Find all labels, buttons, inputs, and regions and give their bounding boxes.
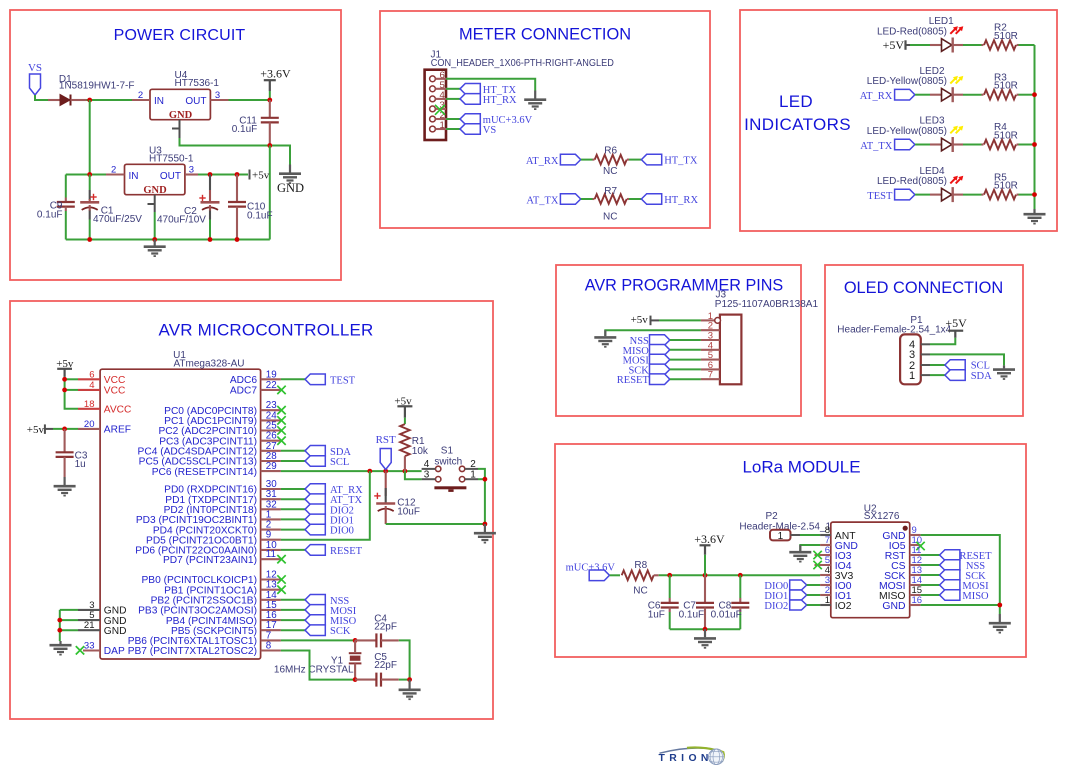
U1 pin 2 PD4 (261, 529, 281, 531)
svg-text:0.1uF: 0.1uF (37, 209, 63, 220)
svg-text:AT_TX: AT_TX (526, 195, 558, 206)
ground for J1 pin 6 (524, 91, 546, 110)
wire U2 MOSI to MOSI (921, 584, 940, 586)
svg-text:OUT: OUT (185, 96, 206, 107)
wire RESET to J3 (670, 378, 701, 380)
U1 pin 29 PC6 (261, 470, 281, 472)
wire U3 GND to bottom rail (154, 212, 156, 240)
junction C7 top (703, 573, 708, 578)
svg-text:DIO0: DIO0 (330, 526, 354, 537)
net label RESET (305, 545, 325, 556)
svg-text:3: 3 (215, 90, 220, 101)
svg-text:22pF: 22pF (374, 660, 397, 671)
wire C12 bottom to ground net (386, 523, 485, 525)
svg-text:21: 21 (84, 620, 95, 631)
wire J1 pin2 to mUC+3.6V (446, 118, 460, 120)
svg-text:DIO2: DIO2 (764, 601, 788, 612)
ground bottom rail (66, 239, 270, 241)
wire +3.6V to rail (704, 555, 706, 576)
wire P1 pin2 to SCL (930, 364, 945, 366)
svg-text:GND: GND (143, 185, 167, 196)
POWER CIRCUIT section frame (10, 10, 341, 280)
U2 pin 11 RST (910, 554, 921, 556)
U1 pin 12 PB0 (261, 578, 281, 580)
svg-text:LED: LED (779, 92, 813, 111)
svg-text:TRION: TRION (659, 753, 713, 764)
wire C5 to ground corner (399, 679, 410, 681)
svg-text:PC6 (RESETPCINT14): PC6 (RESETPCINT14) (152, 467, 257, 478)
capacitor C2 470uF/10V polarized (209, 175, 211, 191)
svg-text:22pF: 22pF (374, 622, 397, 633)
wire input rail to U3 IN (66, 174, 106, 176)
svg-text:HT_RX: HT_RX (664, 195, 698, 206)
svg-text:510R: 510R (994, 81, 1018, 92)
svg-text:16: 16 (912, 595, 923, 606)
net label AT_RX (305, 484, 325, 495)
regulator U3 HT7550-1 (125, 164, 185, 194)
U1 pin 33 DAP (83, 649, 100, 651)
net label SCK (305, 625, 325, 636)
capacitor C12 10uF polarized (385, 471, 387, 496)
svg-text:SCK: SCK (330, 626, 351, 637)
wire R6 to HT_TX flag (629, 159, 641, 161)
U1 pin 11 PD7 (261, 558, 281, 560)
resistor R2 510R (982, 44, 984, 46)
wire U1 PD2 to DIO2 (281, 508, 305, 510)
wire U1 PC4 to SDA (281, 450, 305, 452)
capacitor C3 1u (64, 429, 66, 452)
wire R1 junction to S1 pin3 (405, 471, 422, 479)
svg-text:1u: 1u (75, 459, 86, 470)
junction Y1 top (353, 638, 358, 643)
U1 pin 33 DAP no-connect X (76, 646, 84, 654)
wire U2 GND9 to ground (921, 535, 1000, 614)
U1 pin 15 PB3 (261, 609, 281, 611)
svg-text:OUT: OUT (160, 171, 181, 182)
wire AT_RX flag to R6 (581, 159, 593, 161)
U1 pin 30 PD0 (261, 488, 281, 490)
wire U1 PD4 to DIO0 (281, 529, 305, 531)
S1 pin 1 lead (465, 478, 478, 480)
ground at P1 pin3 (993, 365, 1015, 379)
ground under crystal (399, 680, 421, 700)
svg-text:CON_HEADER_1X06-PTH-RIGHT-ANGL: CON_HEADER_1X06-PTH-RIGHT-ANGLED (431, 58, 614, 69)
S1 pin 4 lead (422, 468, 436, 470)
U2 pin 9 GND (910, 534, 921, 536)
ground under C3 (54, 477, 76, 496)
svg-text:RESET: RESET (330, 546, 363, 557)
METER CONNECTION section frame (380, 11, 710, 228)
U2 pin 12 CS (910, 564, 921, 566)
svg-text:HT_RX: HT_RX (483, 95, 517, 106)
svg-text:HT7550-1: HT7550-1 (149, 154, 194, 165)
J1 pin 5 (430, 86, 436, 92)
wire U1 ADC6 to TEST (281, 378, 305, 380)
ground at U2 pin7 (789, 545, 811, 562)
net label HT_RX right (641, 194, 661, 205)
svg-text:0.01uF: 0.01uF (711, 609, 742, 620)
U4 GND pin (172, 120, 180, 138)
wire NSS to J3 (670, 339, 701, 341)
junction caps ground (703, 627, 708, 632)
svg-text:16MHz CRYSTAL: 16MHz CRYSTAL (274, 665, 354, 676)
wire J1 pin1 to VS (446, 128, 460, 130)
wire diode to U4 IN (87, 99, 133, 101)
svg-text:TEST: TEST (867, 191, 893, 202)
wire DIO1 to U2 (807, 594, 820, 596)
junction RST branch (383, 469, 388, 474)
capacitor C11 0.1uF (269, 100, 271, 118)
junction C11 bottom (267, 143, 272, 148)
U3 pin 3 lead (185, 173, 198, 175)
net label DIO1 (305, 514, 325, 525)
svg-text:P2: P2 (766, 511, 779, 522)
U1 pin 13 PB1 (261, 589, 281, 591)
svg-text:6: 6 (89, 369, 94, 380)
wire R5 to common (1019, 194, 1035, 196)
junction node at D1 output (87, 98, 92, 103)
resistor R5 510R (982, 194, 984, 196)
U1 pin 17 PB5 (261, 629, 281, 631)
svg-text:2: 2 (111, 165, 116, 176)
OLED CONNECTION section frame (825, 265, 1023, 416)
svg-text:11: 11 (266, 549, 276, 560)
wire U1 PC5 to SCL (281, 460, 305, 462)
wire U1 PD0 to AT_RX (281, 488, 305, 490)
ground at J3 pin2 (594, 330, 616, 347)
svg-text:470uF/25V: 470uF/25V (93, 214, 142, 225)
wire U2 SCK to SCK (921, 574, 940, 576)
svg-text:PD7 (PCINT23AIN1): PD7 (PCINT23AIN1) (163, 555, 257, 566)
wire U1 PB5 to SCK (281, 629, 305, 631)
wire MISO to J3 (670, 349, 701, 351)
svg-text:+5v: +5v (252, 170, 270, 182)
LED common vertical wire (1034, 45, 1036, 209)
svg-text:ADC6: ADC6 (230, 375, 258, 386)
svg-text:LED-Red(0805): LED-Red(0805) (877, 26, 947, 37)
net label MISO (305, 615, 325, 626)
svg-text:4: 4 (89, 380, 94, 391)
net label SDA (945, 370, 965, 381)
svg-text:1: 1 (440, 120, 445, 131)
capacitor C10 0.1uF (236, 175, 238, 203)
U2 pin 6 IO3 (815, 554, 831, 556)
junction U3 GND bottom (152, 237, 157, 242)
wire +5v to R1 (404, 418, 406, 424)
svg-text:3: 3 (189, 165, 194, 176)
svg-text:HT7536-1: HT7536-1 (175, 78, 220, 89)
wire DIO2 to U2 (807, 604, 820, 606)
wire +5v to AREF (53, 428, 78, 430)
net label HT_TX (460, 84, 480, 95)
svg-text:NC: NC (603, 166, 617, 177)
svg-text:TEST: TEST (330, 375, 356, 386)
capacitor C6 1uF (669, 575, 671, 598)
svg-text:AVCC: AVCC (104, 405, 132, 416)
svg-text:+5V: +5V (945, 316, 967, 330)
svg-text:510R: 510R (994, 31, 1018, 42)
resistor R8 NC (622, 571, 654, 581)
svg-text:SDA: SDA (971, 371, 992, 382)
capacitor C1 470uF/25V polarized (89, 175, 91, 191)
J1 pin 6 (430, 76, 436, 82)
svg-text:GND: GND (104, 626, 127, 637)
U3 pin 2 lead (106, 173, 125, 175)
svg-text:VS: VS (28, 62, 42, 74)
junction S1 pin1 (483, 477, 488, 482)
junction LED4 row (1032, 192, 1037, 197)
svg-text:NC: NC (603, 212, 617, 223)
svg-text:AT_RX: AT_RX (860, 91, 893, 102)
wire mUC flag to R8 (610, 574, 620, 576)
U2 pin 14 MOSI (910, 584, 921, 586)
junction crystal ground node (407, 677, 412, 682)
svg-text:2: 2 (138, 90, 143, 101)
LoRa caps ground rail (670, 628, 741, 630)
ground under GND pins (50, 641, 72, 655)
crystal Y1 16MHz (354, 640, 356, 652)
U2 pin 8 ANT (820, 534, 831, 536)
U1 pin 18 AVCC (78, 408, 100, 410)
wire J1 pin6 to ground (446, 79, 535, 91)
svg-text:PB7 (PCINT7XTAL2TOSC2): PB7 (PCINT7XTAL2TOSC2) (128, 646, 257, 657)
ground at U2 right (989, 614, 1011, 633)
capacitor C9 0.1uF (65, 175, 67, 198)
ground LED common (1024, 209, 1046, 224)
wire R3 to common (1019, 94, 1035, 96)
ground under U3 (144, 240, 166, 257)
wire P1 pin1 to SDA (930, 374, 945, 376)
U1 pin 27 PC4 (261, 450, 281, 452)
J1 pin 3 (430, 106, 436, 112)
net label RESET (940, 550, 960, 561)
wire P1 pin3 to ground (930, 354, 1004, 365)
U2 pin 16 GND (910, 604, 921, 606)
wire AT_TX flag to R7 (581, 198, 593, 200)
net label SCL (305, 456, 325, 467)
junction U2 grounds (997, 603, 1002, 608)
junction U3 input at D1 branch (87, 172, 92, 177)
net PC6 wire to reset circuit (281, 470, 422, 472)
net label DIO2 (305, 504, 325, 515)
U2 pin 7 GND (820, 544, 831, 546)
svg-text:LED-Red(0805): LED-Red(0805) (877, 176, 947, 187)
resistor R7 NC (593, 198, 595, 200)
resistor R4 510R (982, 143, 984, 145)
wire U3 OUT to +5v tap (198, 174, 248, 176)
U1 pin 9 PD5 (261, 539, 281, 541)
wire U1 PD6 to RESET (281, 549, 305, 551)
svg-text:33: 33 (84, 641, 95, 652)
svg-text:LED-Yellow(0805): LED-Yellow(0805) (867, 126, 947, 137)
svg-text:AT_RX: AT_RX (526, 156, 559, 167)
svg-text:INDICATORS: INDICATORS (744, 115, 851, 134)
U1 pin 23 PC0 (261, 409, 281, 411)
wire LED2 to R3 (963, 94, 982, 96)
wire +5V to LED1 (910, 44, 930, 46)
ground under caps (694, 629, 716, 648)
net label VS (30, 74, 41, 95)
svg-text:0.1uF: 0.1uF (232, 124, 258, 135)
junction R1 bottom (403, 469, 408, 474)
svg-text:1N5819HW1-7-F: 1N5819HW1-7-F (59, 81, 135, 92)
LED INDICATORS section frame (740, 10, 1057, 231)
TRION logo (659, 747, 726, 764)
wire GND pins to ground (60, 609, 78, 611)
J1 pin3 no-connect X (435, 105, 445, 115)
U2 pin 2 IO1 (820, 594, 831, 596)
U1 pin 26 PC3 (261, 440, 281, 442)
capacitor C8 0.01uF (739, 575, 741, 598)
svg-text:1uF: 1uF (648, 609, 665, 620)
U1 pin 24 PC1 (261, 419, 281, 421)
LoRa module U2 SX1276 (831, 522, 910, 618)
svg-text:S1: S1 (441, 445, 454, 456)
svg-text:510R: 510R (994, 130, 1018, 141)
junction Y1 bottom (353, 677, 358, 682)
wire LED4 to R5 (963, 194, 982, 196)
svg-text:10uF: 10uF (397, 507, 420, 518)
wire MOSI to J3 (670, 359, 701, 361)
junction C2 node (208, 172, 213, 177)
svg-text:VCC: VCC (104, 386, 126, 397)
U2 pin 3 IO0 (820, 584, 831, 586)
svg-text:IO2: IO2 (835, 601, 852, 612)
wire U1 PB2 to NSS (281, 599, 305, 601)
svg-text:AVR PROGRAMMER PINS: AVR PROGRAMMER PINS (585, 277, 784, 295)
diode D1 1N5819HW1-7-F (48, 99, 60, 101)
net label mUC+3.6V (460, 114, 480, 125)
svg-text:POWER CIRCUIT: POWER CIRCUIT (114, 27, 246, 44)
wire U1 PB4 to MISO (281, 619, 305, 621)
svg-text:SCL: SCL (330, 457, 349, 468)
svg-text:+5v: +5v (631, 314, 649, 326)
J1 pin 4 (430, 96, 436, 102)
wire U2 CS to NSS (921, 564, 940, 566)
wire P2 to U2 ANT (791, 534, 801, 536)
LoRa MODULE section frame (555, 444, 1026, 657)
svg-text:RESET: RESET (617, 375, 650, 386)
net label AT_TX (305, 494, 325, 505)
svg-text:IN: IN (129, 171, 139, 182)
capacitor C5 22pF (355, 679, 376, 681)
U1 pin 14 PB2 (261, 599, 281, 601)
svg-text:AT_TX: AT_TX (860, 141, 892, 152)
wire S1 right pins to ground net (478, 469, 485, 524)
regulator U4 HT7536-1 (150, 89, 210, 119)
junction C8 top (738, 573, 743, 578)
junction VCC pin 4 (62, 388, 67, 393)
net label HT_RX (460, 94, 480, 105)
wire LED1 to R2 (963, 44, 982, 46)
U1 pin 31 PD1 (261, 498, 281, 500)
svg-text:LoRa MODULE: LoRa MODULE (742, 458, 860, 477)
svg-text:NC: NC (633, 585, 647, 596)
AVR PROGRAMMER PINS section frame (556, 265, 801, 416)
wire PB7 to crystal bottom (281, 651, 355, 680)
S1 pin 3 lead (422, 478, 436, 480)
svg-text:LED-Yellow(0805): LED-Yellow(0805) (867, 76, 947, 87)
wire U2 MISO to MISO (921, 594, 940, 596)
svg-text:1: 1 (909, 370, 915, 382)
U1 pin 1 PD3 (261, 518, 281, 520)
wire down from D1 junction to U3 rail (89, 100, 91, 175)
wire VS to diode (35, 95, 48, 100)
U1 pin 19 ADC6 (261, 378, 281, 380)
svg-text:SX1276: SX1276 (864, 511, 900, 522)
net label NSS (940, 560, 960, 571)
U2 pin 10 IO5 (910, 544, 921, 546)
svg-text:METER CONNECTION: METER CONNECTION (459, 26, 631, 44)
svg-text:10k: 10k (412, 446, 429, 457)
wire R4 to common (1019, 144, 1035, 146)
U2 pin 4 3V3 (820, 574, 831, 576)
junction AREF node (62, 427, 67, 432)
U2 pin 13 SCK (910, 574, 921, 576)
svg-text:R8: R8 (634, 560, 647, 571)
wire U4 OUT to +3.6V node (229, 99, 270, 101)
svg-text:20: 20 (84, 419, 95, 430)
net label DIO0 (305, 524, 325, 535)
junction ground net corner (483, 522, 488, 527)
wire PB6 to crystal net (281, 639, 355, 641)
U1 pin 4 VCC (78, 389, 100, 391)
ground under S1 (474, 524, 496, 543)
svg-text:RST: RST (376, 434, 396, 446)
svg-text:GND: GND (882, 601, 905, 612)
U1 pin 3 GND (78, 609, 100, 611)
microcontroller U1 ATmega328-AU (100, 369, 261, 659)
net label HT_TX right (641, 154, 661, 165)
U1 pin 5 GND (78, 619, 100, 621)
svg-text:MISO: MISO (962, 591, 989, 602)
svg-text:1: 1 (778, 531, 784, 542)
svg-text:AREF: AREF (104, 425, 131, 436)
J1 pin 1 (430, 126, 436, 132)
AVR MICROCONTROLLER section frame (10, 301, 493, 719)
wire C4 to right vertical (399, 640, 410, 679)
wire U2 RST to RESET (921, 554, 940, 556)
svg-text:470uF/10V: 470uF/10V (157, 215, 206, 226)
ground GND under U4 (279, 165, 301, 184)
J1 pin 2 (430, 116, 436, 122)
junction C10 node (235, 172, 240, 177)
U4 pin 3 lead (210, 99, 228, 101)
svg-text:HT_TX: HT_TX (664, 156, 698, 167)
net label SCK (940, 570, 960, 581)
svg-text:Header-Female-2.54_1x4: Header-Female-2.54_1x4 (837, 324, 951, 335)
junction GND pin 21 (57, 628, 62, 633)
wire +5V to P1 pin4 (930, 338, 955, 345)
U1 pin 16 PB4 (261, 619, 281, 621)
wire PD5 loop (281, 471, 370, 540)
wire U1 PD3 to DIO1 (281, 518, 305, 520)
U1 pin 28 PC5 (261, 460, 281, 462)
svg-text:29: 29 (266, 461, 277, 472)
wire J1 pin4 to HT_RX (446, 98, 460, 100)
junction C10 bottom (235, 237, 240, 242)
wire U1 PB3 to MOSI (281, 609, 305, 611)
capacitor C4 22pF (355, 639, 376, 641)
svg-text:0.1uF: 0.1uF (247, 210, 273, 221)
wire R8 to U2 3V3 (659, 574, 820, 576)
U3 GND pin (148, 195, 155, 212)
resistor R1 10k (400, 424, 410, 456)
wire J3 pin2 to ground (605, 330, 701, 336)
net label TEST (305, 374, 325, 385)
junction LED2 row (1032, 92, 1037, 97)
junction C6 top (667, 573, 672, 578)
